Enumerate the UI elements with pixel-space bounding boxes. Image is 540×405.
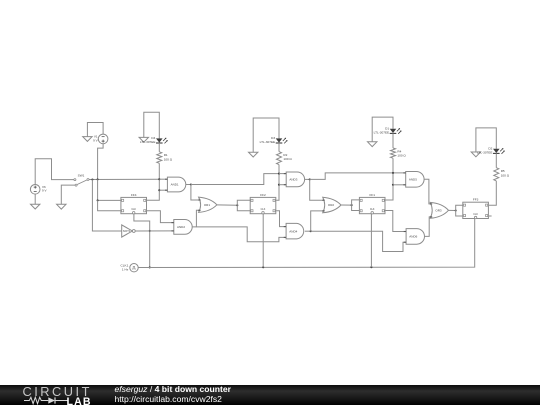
wire FF1 CLK <box>370 214 372 267</box>
wire V1 positive to node A <box>98 144 104 180</box>
svg-text:FF2: FF2 <box>260 193 266 197</box>
wire AND4 carry to AND6 input B <box>311 231 406 251</box>
AND gate AND2 <box>174 220 192 235</box>
node AND3 output junction <box>309 178 311 180</box>
AND gate AND3 <box>286 172 304 187</box>
wire V1 negative to ground <box>87 123 103 137</box>
svg-text:AND3: AND3 <box>289 178 297 182</box>
resistor R4 <box>391 148 396 158</box>
wire FF4 CLK <box>134 214 150 268</box>
wire FF2 Qbar to AND4 input A <box>276 211 286 227</box>
pin AND1 B <box>165 189 167 191</box>
wire AND4 output <box>305 230 311 232</box>
pin AND3 B <box>284 184 286 186</box>
wire switch throw 2 to ground <box>61 185 75 204</box>
wire V6 to switch throw 1 <box>35 159 74 185</box>
pin AND5 B <box>403 184 405 186</box>
svg-text:1 Hz: 1 Hz <box>122 267 129 271</box>
resistor R2 <box>277 152 282 165</box>
LED D1 <box>390 128 402 134</box>
wire OR3 output to FF3 <box>449 209 456 211</box>
wire AND3 out to OR2 input A <box>310 179 324 200</box>
node riser1-AND1 junction <box>158 189 160 191</box>
pin AND5 A <box>403 172 405 174</box>
wire OR1 output to FF2 <box>217 204 237 206</box>
wire OR2 output to FF1 <box>341 204 352 206</box>
svg-text:AND6: AND6 <box>409 235 417 239</box>
pin AND6 B <box>404 241 406 243</box>
pin OR1 B <box>198 209 200 211</box>
wire AND2 carry to AND4 input B <box>196 227 286 242</box>
ground S2 <box>249 152 258 157</box>
node riser3-AND5 junction <box>392 184 394 186</box>
AND gate AND6 <box>406 229 424 245</box>
wire riser2 to AND3 input A <box>279 173 286 175</box>
node AND1 output junction <box>190 183 192 185</box>
wire AND1 carry to AND3 input A <box>191 174 279 185</box>
resistor R5 <box>494 168 499 181</box>
node FF4 D junction <box>97 199 99 201</box>
svg-text:OR1: OR1 <box>204 203 211 207</box>
AND gate AND1 <box>167 177 185 192</box>
flip-flop FF3 <box>463 198 489 219</box>
footer bar <box>0 385 540 405</box>
wire S2 net bridge <box>253 118 279 152</box>
wire R5 to FF3 Q riser <box>489 181 497 205</box>
wire node to FF4 D input <box>98 179 121 200</box>
node riser3-carry junction <box>392 172 394 174</box>
svg-text:CLK: CLK <box>473 213 478 216</box>
voltage source V1 <box>93 134 108 144</box>
wire FF3 Qbar stub <box>489 215 492 217</box>
ground S4 <box>471 152 480 157</box>
pin AND2 B <box>171 230 173 232</box>
wire AND6 out to OR3 input B <box>425 217 432 237</box>
node switch-V1 junction <box>97 178 99 180</box>
wire AND5 out to OR3 input A <box>424 179 432 204</box>
wire AND1 out to OR1 input A <box>191 185 200 201</box>
wire S4 net bridge <box>476 128 496 152</box>
wire junction to FF1 EN input <box>352 205 360 210</box>
wire FF1 Qbar to AND6 input A <box>384 211 406 232</box>
wire riser3 to AND5 input B <box>393 184 406 186</box>
svg-text:AND5: AND5 <box>409 178 417 182</box>
wire FF2 CLK <box>262 214 264 267</box>
pin OR2 A <box>322 199 324 201</box>
wire junction to FF1 D input <box>352 200 360 205</box>
wire switch common rail <box>89 178 159 180</box>
wire junction to FF2 D input <box>237 200 250 205</box>
wire S1 net bridge <box>144 112 160 138</box>
ground at V1 <box>83 137 92 142</box>
ground at SW1 <box>57 204 66 209</box>
svg-text:9 V: 9 V <box>93 138 98 142</box>
svg-text:CLK: CLK <box>261 208 266 211</box>
wire R4 to FF1 Q riser <box>384 158 393 200</box>
wire D4 cathode to R1 <box>158 143 160 152</box>
OR gate OR2 <box>323 197 341 213</box>
svg-text:100 Ω: 100 Ω <box>164 157 173 161</box>
svg-text:100 Ω: 100 Ω <box>397 154 406 158</box>
svg-text:FF1: FF1 <box>369 193 375 197</box>
svg-text:LTL-307EE: LTL-307EE <box>260 140 275 144</box>
wire junction to FF2 EN input <box>237 205 250 210</box>
pin AND4 A <box>284 226 286 228</box>
svg-text:LTL-307EE: LTL-307EE <box>140 140 155 144</box>
CircuitLab logo <box>23 387 95 405</box>
node riser1-rail junction <box>158 178 160 180</box>
ground S3 <box>368 142 377 147</box>
node CLK rail junction 1 <box>149 266 151 268</box>
wire riser to AND1 input B <box>159 189 167 191</box>
wire AND4 out to OR2 input B <box>311 211 324 231</box>
LED D3 <box>276 138 288 144</box>
wire V6 negative to ground <box>34 194 36 204</box>
svg-text:100 Ω: 100 Ω <box>283 157 292 161</box>
wire D3 cathode to R2 <box>278 143 280 152</box>
svg-text:SW1: SW1 <box>78 173 85 177</box>
node riser2-AND3 junction <box>278 184 280 186</box>
svg-text:CLK: CLK <box>370 208 375 211</box>
svg-text:LTL-307EE: LTL-307EE <box>477 150 492 154</box>
wire junction to FF3 EN input <box>456 211 463 217</box>
inverter NOT1 <box>122 225 136 237</box>
AND gate AND5 <box>406 172 424 188</box>
LED D4 <box>156 138 168 144</box>
wire AND1 output <box>186 184 191 186</box>
pin AND2 A <box>171 222 173 224</box>
svg-text:NOT1: NOT1 <box>123 229 131 233</box>
ground S1 <box>139 137 148 142</box>
pin AND4 B <box>284 236 286 238</box>
svg-text:9 V: 9 V <box>42 189 47 193</box>
pin AND1 A <box>165 178 167 180</box>
wire R1 to FF4 Q riser <box>147 163 159 200</box>
wire node to NOT1 input <box>92 180 121 232</box>
flip-flop FF4 <box>121 193 147 214</box>
pin OR3 A <box>430 203 432 205</box>
svg-text:AND1: AND1 <box>171 183 179 187</box>
node OR1-FF2 junction <box>236 204 238 206</box>
flip-flop FF1 <box>359 193 385 214</box>
AND gate AND4 <box>286 223 304 239</box>
svg-text:FF4: FF4 <box>131 193 137 197</box>
svg-text:OR3: OR3 <box>435 209 442 213</box>
node CLK-FF2 junction <box>262 266 264 268</box>
node NOT1-CLK junction <box>149 230 151 232</box>
OR gate OR1 <box>199 197 217 212</box>
wire CLK rail <box>138 218 475 268</box>
node CLK-FF1 junction <box>370 266 372 268</box>
wire D1 cathode to R4 <box>392 133 394 148</box>
wire riser2 to AND3 input B <box>279 184 286 186</box>
svg-text:LTL-307EE: LTL-307EE <box>374 130 389 134</box>
clock source CLK1 <box>121 264 139 272</box>
node switch-NOT1 junction <box>91 178 93 180</box>
svg-text:OR2: OR2 <box>328 203 335 207</box>
wire AND3 carry to AND5 input A <box>310 173 406 180</box>
LED D2 <box>493 148 505 154</box>
wire FF4 Qbar to AND2 input A <box>147 211 174 223</box>
wire NOT1 output to AND2 input B <box>135 230 174 232</box>
node riser2-carry junction <box>278 173 280 175</box>
pin OR2 B <box>322 210 324 212</box>
pin OR3 B <box>430 216 432 218</box>
wire D2 cathode to R5 <box>495 153 497 167</box>
node AND4 output junction <box>310 230 312 232</box>
pin AND6 A <box>404 231 406 233</box>
svg-text:AND4: AND4 <box>289 229 297 233</box>
wire node to FF4 EN input <box>98 200 121 210</box>
OR gate OR3 <box>430 202 448 218</box>
pin OR1 A <box>198 199 200 201</box>
pin AND3 A <box>284 173 286 175</box>
node OR3-FF3 junction <box>455 209 457 211</box>
wire riser to AND1 input A <box>159 178 167 180</box>
wire junction to FF3 D input <box>456 205 463 210</box>
svg-text:100 Ω: 100 Ω <box>501 173 510 177</box>
flip-flop FF2 <box>250 193 276 214</box>
ground at V6 <box>31 204 40 209</box>
switch SW1 <box>74 173 89 186</box>
svg-text:AND2: AND2 <box>177 225 185 229</box>
svg-text:CLK: CLK <box>131 208 136 211</box>
voltage source V6 <box>30 185 46 195</box>
wire AND3 output <box>305 178 310 180</box>
title text <box>115 385 232 405</box>
resistor R1 <box>157 152 162 164</box>
wire R2 to FF2 Q riser <box>276 165 279 201</box>
wire S3 net bridge <box>372 117 393 142</box>
node OR2-FF1 junction <box>351 204 353 206</box>
svg-text:FF3: FF3 <box>473 198 479 202</box>
wire AND2 output to OR1 input B <box>192 210 199 227</box>
